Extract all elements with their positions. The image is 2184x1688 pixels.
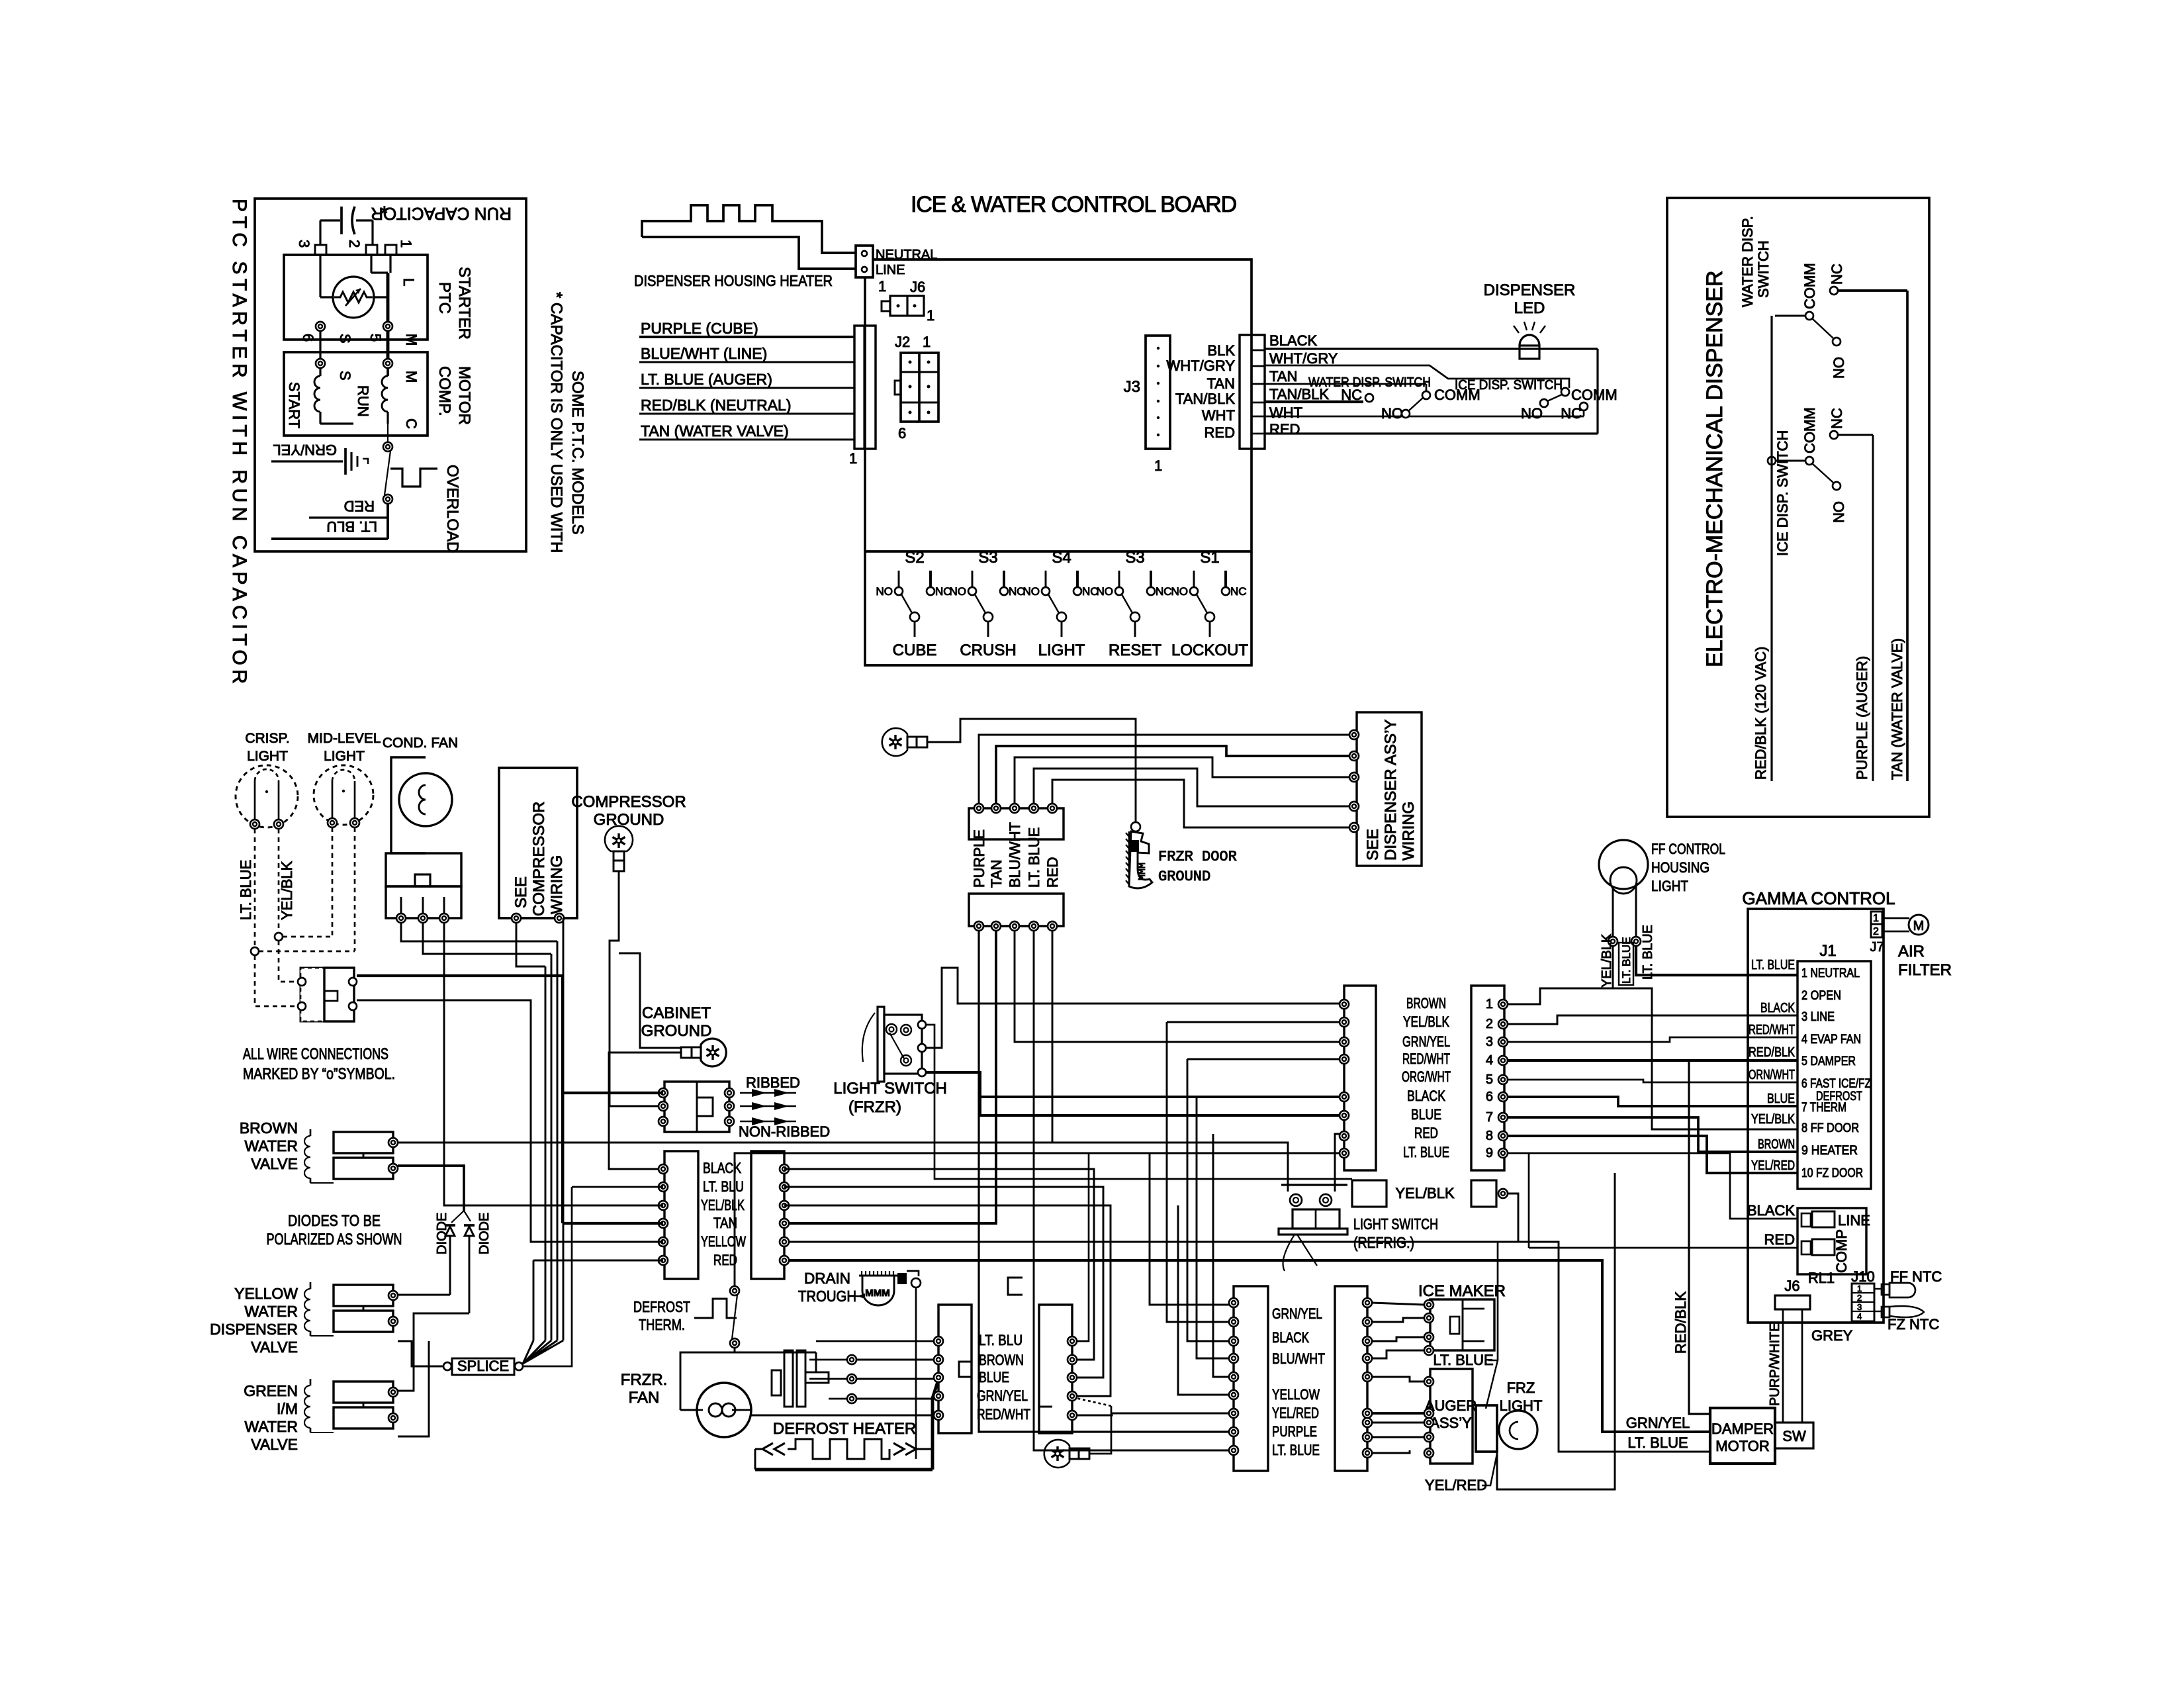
svg-text:ALL WIRE CONNECTIONS: ALL WIRE CONNECTIONS [243,1045,388,1063]
svg-text:YEL/RED: YEL/RED [1751,1158,1795,1173]
svg-text:VALVE: VALVE [251,1436,298,1453]
svg-text:RL1: RL1 [1808,1270,1835,1286]
svg-text:NO: NO [1521,405,1543,422]
ground lug center top [882,728,907,756]
wire defrost therm to LT.BLUE row [735,1153,1344,1286]
svg-text:DISPENSER ASS’Y: DISPENSER ASS’Y [1382,720,1400,861]
svg-text:WHT: WHT [1202,407,1235,424]
svg-text:10 FZ DOOR: 10 FZ DOOR [1801,1166,1863,1180]
stub YELLOW row [1178,1205,1234,1395]
svg-text:GRN/YEL: GRN/YEL [1626,1415,1690,1431]
svg-text:LIGHT: LIGHT [1038,641,1085,659]
svg-text:DIODES TO BE: DIODES TO BE [288,1212,381,1230]
svg-text:SEE: SEE [1364,829,1382,861]
wire center lug to frzr door ground [927,719,1136,822]
svg-text:J7: J7 [1870,940,1884,955]
svg-text:COMP.: COMP. [435,366,453,416]
svg-text:PURP/WHITE: PURP/WHITE [1768,1323,1782,1406]
svg-text:VALVE: VALVE [251,1155,298,1172]
svg-text:COMPRESSOR: COMPRESSOR [571,793,686,811]
relay COMP [1801,1241,1811,1254]
svg-text:J2: J2 [895,334,910,350]
svg-text:6 FAST ICE/FZ: 6 FAST ICE/FZ [1801,1077,1871,1091]
svg-text:GRN/YEL: GRN/YEL [273,442,337,458]
svg-text:WHT/GRY: WHT/GRY [1167,357,1236,374]
svg-text:GRN/YEL: GRN/YEL [1402,1033,1450,1050]
wire ice switch NC to PURPLE bus [1838,434,1873,436]
COMP. MOTOR box [284,352,428,436]
wire yellow+green valves to splice [398,1341,443,1366]
board divider line [865,550,1251,553]
overload protector [383,442,392,451]
svg-text:TAN (WATER VALVE): TAN (WATER VALVE) [1889,638,1905,780]
control board outline [865,259,1251,665]
svg-text:J6: J6 [910,279,925,295]
wire 5 to M [387,331,390,359]
svg-text:NC: NC [1829,408,1845,429]
svg-text:TAN/BLK: TAN/BLK [1175,391,1235,407]
svg-text:BLU/WHT: BLU/WHT [1272,1350,1325,1367]
svg-text:CRUSH: CRUSH [960,641,1016,659]
svg-text:6: 6 [1486,1090,1493,1104]
svg-text:DEFROST: DEFROST [1816,1090,1862,1103]
svg-text:DISPENSER HOUSING HEATER: DISPENSER HOUSING HEATER [634,272,833,289]
svg-text:S: S [337,371,353,381]
svg-text:GROUND: GROUND [641,1022,712,1040]
svg-text:WIRING: WIRING [548,855,566,914]
svg-text:RED: RED [1414,1125,1438,1141]
svg-text:RUN CAPACITOR: RUN CAPACITOR [371,204,512,224]
svg-text:4: 4 [1857,1311,1862,1321]
run capacitor C1 [320,219,340,221]
wires evap fan to connector [856,1359,938,1361]
svg-text:PURPLE: PURPLE [1272,1423,1317,1440]
svg-text:1: 1 [398,240,414,248]
wire cap to terminal 3 [319,220,321,245]
left pair connector column 2 [751,1151,784,1279]
wire compressor to splice [516,923,545,966]
svg-text:5: 5 [367,334,384,342]
svg-text:S1: S1 [1200,549,1219,567]
wire water switch NC to TAN bus [1838,289,1907,292]
svg-text:2: 2 [346,240,363,248]
wire L leg [370,255,372,273]
wire refrig switch to RED row [1335,1134,1344,1185]
svg-text:TAN: TAN [1269,368,1297,385]
svg-text:GAMMA CONTROL: GAMMA CONTROL [1742,888,1895,908]
svg-text:BLU/WHT: BLU/WHT [1007,822,1023,888]
wire overload to LT.BLU [387,504,389,539]
wire cap to terminal 2 [371,220,373,245]
svg-text:BLK: BLK [1207,342,1235,359]
wires converging on splice [533,1260,535,1340]
svg-text:6: 6 [898,425,906,442]
terminal 2 [366,245,377,255]
svg-text:ICE & WATER CONTROL BOARD: ICE & WATER CONTROL BOARD [911,192,1236,217]
svg-text:ORG/WHT: ORG/WHT [1402,1068,1451,1085]
svg-text:LT. BLUE: LT. BLUE [238,860,254,920]
connector NEUTRAL/LINE [856,246,873,277]
wire GRN/YEL to damper [789,1260,1710,1432]
bottom dispenser connector [969,894,1064,926]
svg-text:1: 1 [1873,913,1879,924]
svg-text:LINE: LINE [876,263,905,277]
svg-text:RED/WHT: RED/WHT [1402,1051,1450,1067]
ribbed connector [664,1082,729,1132]
svg-text:GROUND: GROUND [594,811,664,829]
svg-text:NO: NO [1097,585,1114,598]
svg-text:M: M [403,334,420,346]
FF CONTROL HOUSING LIGHT [1599,840,1648,889]
svg-text:5: 5 [1486,1072,1493,1087]
svg-text:NO: NO [1381,405,1403,422]
comp motor terminal S [316,359,325,368]
wire LT.BLUE leader up [1497,1242,1499,1360]
svg-text:5 DAMPER: 5 DAMPER [1801,1055,1856,1068]
svg-text:LINE: LINE [1838,1212,1870,1229]
ice maker auger connector column [1335,1286,1367,1471]
wire light YEL/BLK to FF DOOR [1613,946,1797,1129]
svg-text:LOCKOUT: LOCKOUT [1171,641,1248,659]
wire LT.BLU row [572,1186,663,1188]
light switch FRZR [878,1007,884,1082]
svg-text:1: 1 [923,334,931,350]
svg-text:LIGHT SWITCH: LIGHT SWITCH [833,1080,947,1098]
wires top connector to dispenser assy box [979,735,1354,804]
svg-text:4: 4 [1486,1053,1493,1068]
svg-text:PURPLE (AUGER): PURPLE (AUGER) [1854,656,1870,780]
svg-text:TAN/BLK: TAN/BLK [1269,386,1329,402]
svg-text:RED/BLK: RED/BLK [1749,1045,1796,1060]
svg-text:BLACK: BLACK [1269,332,1317,349]
svg-text:LT. BLUE: LT. BLUE [1751,958,1795,972]
svg-text:* CAPACITOR IS ONLY USED WITH: * CAPACITOR IS ONLY USED WITH [547,292,565,553]
svg-text:8: 8 [1486,1129,1493,1143]
left edge connector J2 exterior [854,326,876,449]
wire BLACK row thick [980,1095,1344,1097]
freezer door light switch [300,968,324,1021]
dispenser housing heater element [642,237,856,269]
svg-text:MID-LEVEL: MID-LEVEL [308,731,381,746]
svg-text:SWITCH: SWITCH [1755,240,1772,298]
top dispenser connector [969,808,1064,839]
svg-text:LT. BLUE: LT. BLUE [1272,1442,1320,1458]
svg-text:WATER DISP.: WATER DISP. [1739,216,1756,307]
wire door switch to TAN bus [357,974,563,977]
YEL/BLK jumper boxes [1352,1180,1387,1207]
wire diode to yellow valve [398,1294,450,1296]
svg-text:M: M [1913,919,1925,933]
svg-text:(FRZR): (FRZR) [848,1098,901,1116]
wire RED to relay COMP [1529,1247,1797,1249]
svg-text:SPLICE: SPLICE [457,1358,509,1374]
wire cabinet ground up [619,953,681,1048]
svg-text:DAMPER: DAMPER [1711,1421,1774,1437]
svg-text:J3: J3 [1124,378,1140,396]
svg-text:GREY: GREY [1811,1327,1853,1344]
svg-text:GROUND: GROUND [1158,868,1210,885]
svg-text:YEL/BLK: YEL/BLK [279,861,295,920]
svg-text:LT. BLUE: LT. BLUE [1026,827,1042,888]
pin 6 terminal [316,322,325,331]
svg-text:S: S [337,334,353,344]
svg-text:1: 1 [849,450,857,467]
svg-text:COMM: COMM [1801,407,1818,453]
evap fan motor mount [784,1350,793,1407]
svg-text:PTC STARTER WITH RUN CAPACITOR: PTC STARTER WITH RUN CAPACITOR [228,199,250,688]
wire pin4 to RED/BLK J1 [1508,1059,1797,1062]
svg-text:RED/WHT: RED/WHT [977,1406,1030,1423]
svg-text:BLUE: BLUE [1411,1106,1441,1123]
svg-text:YEL/RED: YEL/RED [1425,1477,1487,1493]
svg-text:WATER: WATER [245,1137,298,1154]
wire RED/BLK to damper [1689,1060,1710,1414]
svg-text:C: C [403,418,420,429]
svg-text:NC: NC [1561,405,1582,422]
svg-text:ELECTRO-MECHANICAL DISPENSER: ELECTRO-MECHANICAL DISPENSER [1702,270,1727,667]
svg-text:BLUE: BLUE [1767,1092,1795,1106]
svg-text:NO: NO [1023,585,1040,598]
svg-text:NO: NO [1171,585,1189,598]
svg-text:TAN (WATER VALVE): TAN (WATER VALVE) [641,422,789,440]
wire pin5 to ORN/WHT J1 [1508,1080,1797,1082]
svg-text:FRZR.: FRZR. [621,1371,668,1389]
splice [443,1362,451,1370]
svg-text:1: 1 [1857,1284,1862,1293]
svg-text:MOTOR: MOTOR [1715,1438,1769,1454]
svg-text:COMM: COMM [1571,387,1617,403]
svg-text:S4: S4 [1052,549,1071,567]
channel wires col2 to bottom connectors [784,1169,1094,1360]
svg-text:YEL/RED: YEL/RED [1272,1405,1319,1421]
wire 6 to S [319,331,321,359]
svg-text:TAN: TAN [1207,375,1235,392]
svg-text:DEFROST HEATER: DEFROST HEATER [773,1420,916,1438]
svg-text:2: 2 [1486,1017,1493,1031]
connector J7 [1871,912,1882,937]
svg-text:BROWN: BROWN [979,1352,1024,1368]
light switch FRZR wires [926,1025,1352,1179]
svg-text:3: 3 [296,240,312,248]
svg-text:TROUGH: TROUGH [798,1288,856,1305]
svg-text:YEL/BLK: YEL/BLK [1751,1112,1796,1127]
wire pin2 to BLACK J1 [1508,1015,1797,1024]
svg-text:TAN: TAN [988,860,1005,888]
ribbed wire ends [740,1092,796,1094]
svg-text:SEE: SEE [512,876,530,908]
wires connector to auger [1372,1377,1424,1382]
svg-text:LED: LED [1514,299,1545,317]
svg-text:MARKED BY “o”SYMBOL.: MARKED BY “o”SYMBOL. [243,1065,395,1083]
svg-text:3 LINE: 3 LINE [1801,1010,1835,1024]
svg-text:RED: RED [1764,1231,1795,1248]
svg-text:NO: NO [950,585,967,598]
cabinet ground lug [701,1039,726,1066]
svg-text:DRAIN: DRAIN [804,1270,850,1287]
svg-text:OVERLOAD: OVERLOAD [443,465,461,553]
svg-text:NC: NC [1829,263,1845,285]
svg-text:NC: NC [1341,387,1362,403]
svg-text:WHT/GRY: WHT/GRY [1269,350,1338,367]
wire cabinet ground [609,1053,681,1169]
pin 5 terminal [383,322,392,331]
terminal 1 [385,245,396,255]
cond fan motor [391,757,426,853]
svg-text:RIBBED: RIBBED [746,1074,800,1091]
PTC starter box [284,255,428,340]
svg-text:STARTER: STARTER [455,267,473,340]
svg-text:S3: S3 [1125,549,1144,567]
wire C to overload [387,424,388,442]
svg-text:RED/WHT: RED/WHT [1749,1023,1795,1037]
svg-text:S3: S3 [978,549,997,567]
svg-text:START: START [286,382,302,428]
svg-text:LT. BLUE: LT. BLUE [1641,925,1655,980]
damper motor [1710,1408,1775,1464]
wire LT BLUE bus down [1034,931,1234,1450]
brown water valve [334,1132,393,1153]
crisp light bulb [236,765,298,827]
svg-text:WIRING: WIRING [1400,802,1418,861]
svg-text:J1: J1 [1819,942,1836,960]
FZ NTC thermistor [1874,1311,1882,1312]
yellow water dispenser valve [334,1285,393,1306]
svg-text:LT. BLUE: LT. BLUE [1403,1144,1449,1160]
svg-text:BLACK: BLACK [1747,1202,1795,1219]
svg-text:BLACK: BLACK [1407,1088,1445,1104]
svg-text:COMP: COMP [1833,1229,1850,1273]
wire compressor ground [610,871,663,1106]
svg-text:NC: NC [1156,585,1172,598]
svg-text:WATER: WATER [245,1418,298,1435]
svg-text:MOTOR: MOTOR [455,366,473,425]
svg-text:SOME P.T.C. MODELS: SOME P.T.C. MODELS [569,371,586,535]
wire pin6 to BLUE J1 [1508,1097,1797,1106]
svg-text:LIGHT: LIGHT [247,749,288,764]
svg-text:LT. BLU: LT. BLU [326,518,377,535]
svg-text:NO: NO [876,585,893,598]
air filter motor M [1882,917,1909,919]
label LT. BLUE boxed [1619,943,1633,985]
svg-text:GRN/YEL: GRN/YEL [977,1387,1028,1404]
svg-text:CABINET: CABINET [642,1004,711,1022]
wire pin7 to BROWN J1 [1508,1117,1797,1152]
svg-text:FILTER: FILTER [1898,961,1952,979]
SEE COMPRESSOR WIRING box [499,768,577,918]
mid-level light bulb [314,765,373,825]
svg-text:J10: J10 [1851,1268,1874,1285]
svg-text:BLUE: BLUE [979,1369,1009,1385]
svg-text:POLARIZED AS SHOWN: POLARIZED AS SHOWN [267,1231,402,1248]
svg-text:LT. BLUE: LT. BLUE [1433,1352,1493,1368]
wire cond fan to YEL/BLK [444,923,663,1205]
ice maker box [1430,1299,1494,1350]
dashed wires lights to door switch [254,829,256,951]
svg-text:1: 1 [878,278,886,295]
svg-text:NON-RIBBED: NON-RIBBED [739,1123,830,1140]
svg-text:2: 2 [1873,926,1879,937]
SW box [1775,1423,1813,1448]
wire RED row to splice [533,1260,663,1262]
PTC section outer box [255,199,526,551]
GRN/YEL connector column [1234,1286,1268,1471]
svg-text:BLACK: BLACK [703,1160,741,1176]
svg-text:L: L [400,278,417,286]
left bottom connector column LT.BLU [938,1305,972,1433]
svg-text:LT. BLUE (AUGER): LT. BLUE (AUGER) [641,371,772,388]
svg-text:9 HEATER: 9 HEATER [1801,1144,1858,1158]
channel verticals to GRN/YEL connector [1150,1153,1234,1305]
svg-text:PURPLE: PURPLE [971,829,987,888]
svg-text:NO: NO [1831,357,1847,379]
green IM water valve [334,1382,393,1403]
svg-text:RESET: RESET [1109,641,1161,659]
wire pin1 to YEL/BLK net [1508,988,1613,1004]
middle bottom connector column [1039,1305,1072,1433]
svg-text:1 NEUTRAL: 1 NEUTRAL [1801,966,1860,980]
svg-text:S2: S2 [905,549,924,567]
compressor ground lug [605,826,633,851]
svg-text:1: 1 [1486,997,1493,1011]
small bracket [1008,1278,1023,1295]
svg-text:FRZ: FRZ [1507,1380,1535,1396]
wire LED loop right edge [1596,349,1598,434]
svg-text:PTC: PTC [435,282,453,314]
terminal 3 [315,245,326,255]
svg-text:1: 1 [1154,457,1162,474]
svg-text:BROWN: BROWN [1758,1137,1795,1152]
wire diode to green valve [398,1313,469,1391]
svg-text:4 EVAP FAN: 4 EVAP FAN [1801,1033,1861,1047]
svg-text:8 FF DOOR: 8 FF DOOR [1801,1121,1859,1135]
svg-text:FRZR DOOR: FRZR DOOR [1158,849,1237,865]
svg-text:ICE MAKER: ICE MAKER [1418,1282,1506,1300]
svg-text:PURPLE (CUBE): PURPLE (CUBE) [641,320,758,337]
svg-text:BLUE/WHT (LINE): BLUE/WHT (LINE) [641,345,767,362]
svg-text:RUN: RUN [355,385,371,417]
svg-text:LT. BLU: LT. BLU [979,1332,1023,1348]
svg-text:YEL/BLK: YEL/BLK [701,1197,745,1213]
svg-text:LT. BLUE: LT. BLUE [1627,1434,1688,1451]
svg-text:DEFROST: DEFROST [633,1298,690,1315]
svg-text:ICE DISP. SWITCH: ICE DISP. SWITCH [1455,378,1563,393]
wire defrost therm to evap fan [734,1348,736,1352]
svg-text:YEL/BLK: YEL/BLK [1403,1013,1449,1030]
svg-text:LIGHT: LIGHT [324,749,365,764]
svg-text:YELLOW: YELLOW [1272,1386,1320,1403]
wire brown valve to diodes [398,1166,464,1211]
FF NTC thermistor [1874,1288,1882,1289]
svg-text:2 OPEN: 2 OPEN [1801,989,1841,1003]
wire terminal3 to resistor [319,255,321,297]
svg-text:BLACK: BLACK [1760,1001,1796,1015]
wire PURPLE bus down [979,931,1234,1432]
svg-text:BROWN: BROWN [1406,995,1446,1011]
BROWN..LT.BLUE connector pair [1344,986,1376,1170]
svg-text:ORN/WHT: ORN/WHT [1749,1068,1795,1082]
wire pin9 to relay BLACK [1508,1153,1797,1219]
svg-text:BROWN: BROWN [240,1119,298,1137]
svg-text:9: 9 [1486,1146,1493,1160]
light switch REFRIG [1281,1184,1347,1186]
svg-text:RED: RED [1269,421,1300,438]
FRZR DOOR GROUND symbol [1129,831,1152,888]
svg-text:RED: RED [1205,424,1235,441]
svg-text:MMM: MMM [1137,863,1148,880]
svg-text:3: 3 [1486,1035,1493,1049]
wire water switch COMM [1775,315,1806,317]
AUGER ASSY box [1430,1369,1473,1464]
